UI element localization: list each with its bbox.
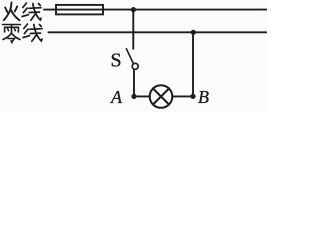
svg-text:B: B <box>198 87 209 107</box>
svg-text:S: S <box>111 50 122 72</box>
svg-text:A: A <box>110 87 123 107</box>
